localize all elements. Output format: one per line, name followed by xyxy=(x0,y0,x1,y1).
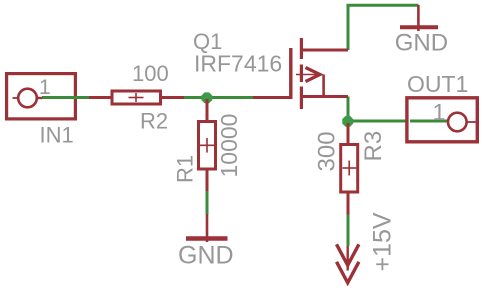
svg-text:IRF7416: IRF7416 xyxy=(194,51,282,77)
svg-text:R1: R1 xyxy=(173,155,198,183)
svg-text:1: 1 xyxy=(433,99,446,125)
svg-text:10000: 10000 xyxy=(216,114,242,178)
svg-text:GND: GND xyxy=(178,242,234,270)
svg-text:R2: R2 xyxy=(140,109,168,134)
svg-text:R3: R3 xyxy=(360,131,387,162)
svg-text:1: 1 xyxy=(39,76,51,99)
svg-text:OUT1: OUT1 xyxy=(407,71,468,97)
svg-text:IN1: IN1 xyxy=(40,122,74,147)
svg-text:+15V: +15V xyxy=(369,212,397,271)
svg-text:300: 300 xyxy=(314,131,341,171)
svg-text:100: 100 xyxy=(132,61,169,86)
svg-text:GND: GND xyxy=(395,30,448,57)
